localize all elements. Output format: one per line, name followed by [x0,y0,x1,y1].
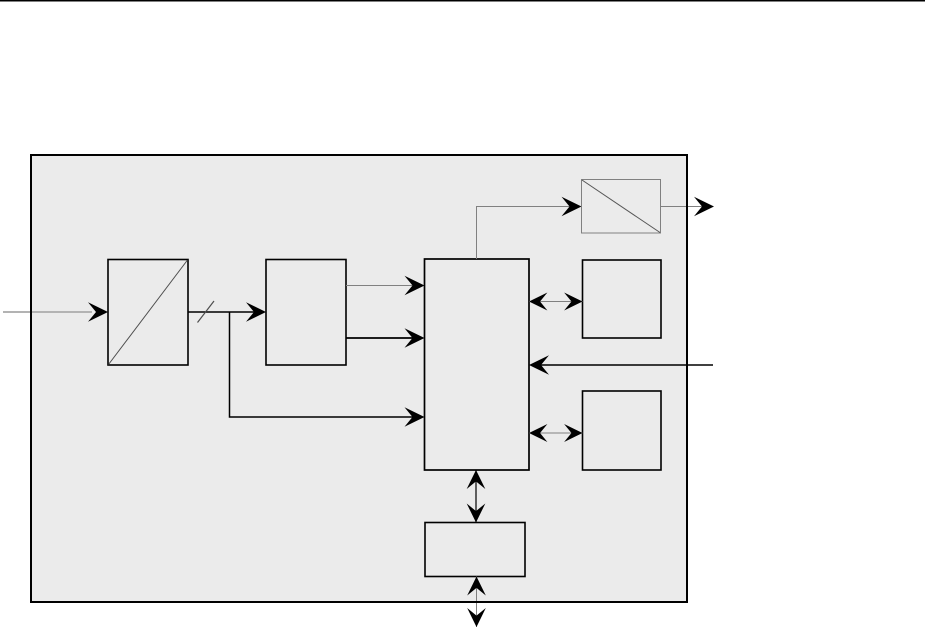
ADC diagonal [109,260,188,365]
block memory A [583,260,662,338]
arrowhead control into processor [529,355,549,375]
arrowhead bidir B left [529,424,547,442]
arrowhead bidir B right [564,424,582,442]
block memory B [583,391,662,470]
wire bidir external port [476,577,478,628]
arrowhead into DAC [562,197,582,217]
arrowhead upper into processor [405,276,425,296]
arrowhead external down [467,608,486,627]
wire decimator to processor upper [346,285,414,287]
arrowhead bidir up into processor [467,470,486,489]
arrowhead analog output [694,197,714,217]
arrowhead into ADC [88,302,108,322]
DAC diagonal [582,180,660,233]
block decimator [266,260,346,366]
wire bidir processor-interface [475,470,477,523]
arrowhead external up [467,577,486,596]
arrowhead into decimator [246,302,266,322]
arrowhead lower into processor [405,328,425,348]
arrowhead branch into processor [405,407,425,427]
wire ADC to decimator [188,311,256,313]
arrowhead bidir A left [529,292,547,310]
top page rule [0,0,925,2]
wire control input from right [541,364,713,366]
enclosure box (chip boundary) [31,155,687,602]
block host interface [425,523,525,577]
wire decimator to processor lower [346,337,414,339]
wire DAC analog output [661,206,703,208]
wire processor to DAC [477,207,572,260]
bus slash [198,301,215,323]
arrowhead bidir down into interface [467,504,486,523]
wire bidir processor-memory B [529,432,583,434]
wire branch to processor [230,312,415,417]
block ADC [108,260,188,366]
wire analog input [3,311,92,313]
wire bidir processor-memory A [529,301,583,303]
block processor core [425,259,530,470]
block DAC [582,180,661,234]
arrowhead bidir A right [564,292,582,310]
enclosure border overdraw [31,155,687,602]
